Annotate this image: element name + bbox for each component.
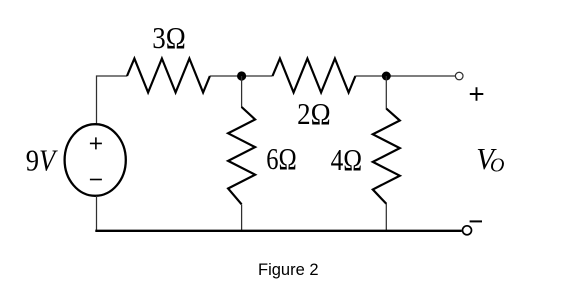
svg-text:3Ω: 3Ω [152,21,186,55]
wire bottom rail [95,230,462,232]
wire top right (R2 to output terminal) [355,75,455,77]
voltage source minus mark [90,179,102,181]
minus sign output polarity [470,220,482,222]
wire node B to R4 top [385,76,387,109]
output terminal top circle [455,72,463,80]
plus sign output polarity [470,87,484,100]
wire top middle (R1 to R2) [210,75,273,77]
svg-text:2Ω: 2Ω [297,97,331,131]
svg-text:9V: 9V [26,142,58,177]
output terminal bottom circle [463,226,472,235]
svg-text:O: O [490,154,504,176]
voltage source V1 circle [65,124,126,196]
wire left vertical (top wire to source top) [97,76,128,124]
node A junction dot [237,71,246,80]
resistor R1 3ohm horizontal zigzag [127,59,210,93]
wire R3 bottom to bottom rail [241,205,243,232]
resistor R4 4ohm vertical zigzag [373,109,400,204]
voltage source plus mark [90,137,102,149]
svg-text:Figure 2: Figure 2 [258,261,319,279]
resistor R3 6ohm vertical zigzag [228,107,255,204]
svg-text:6Ω: 6Ω [266,142,297,176]
wire R4 bottom to bottom rail [385,204,387,232]
wire source bottom to bottom rail [96,196,98,231]
svg-text:4Ω: 4Ω [331,143,363,177]
resistor R2 2ohm horizontal zigzag [273,59,356,93]
node B junction dot [382,72,391,81]
wire node A to R3 top [241,76,243,108]
